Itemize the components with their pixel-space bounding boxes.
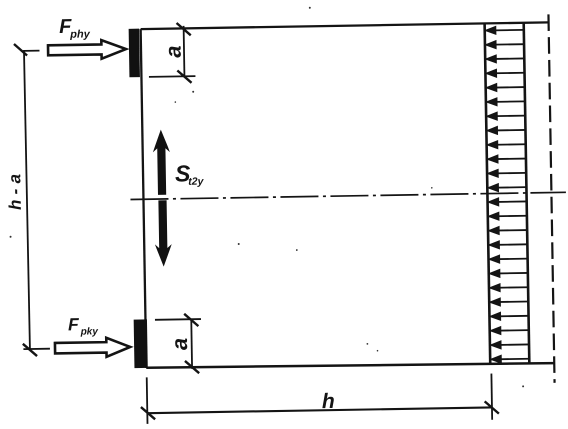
svg-text:t2y: t2y (188, 176, 205, 188)
plate right edge (loaded edge, arrow tip rail) (485, 23, 491, 363)
dimension h: left extension (146, 377, 149, 423)
force arrow F bottom (hollow) (55, 337, 131, 357)
bearing plate top (black) (129, 29, 140, 78)
dimension a bottom: upper stub (155, 318, 201, 321)
dimension h: right extension (490, 374, 493, 420)
svg-text:a: a (161, 45, 186, 58)
force arrow F top (hollow) (48, 40, 126, 60)
dimension h-a: top tick (14, 44, 27, 56)
dimension a top: lower stub (149, 75, 195, 78)
svg-text:F: F (68, 314, 80, 334)
centerline vertical dash-dot (right axis) (548, 14, 554, 382)
dimension h-a: bottom stub (23, 348, 49, 350)
distributed load right boundary rail (524, 23, 530, 363)
dimension h: right tick (485, 401, 499, 414)
plate left edge (141, 29, 147, 368)
distributed load rungs and arrowheads (485, 26, 529, 363)
bearing plate bottom (black) (134, 319, 148, 368)
dimension a top: line (183, 26, 186, 77)
plate bottom edge (146, 361, 554, 370)
dimension h-a: top stub (24, 50, 39, 52)
dimension a top: tick marks (177, 23, 191, 36)
plate top edge (box top, y=h top) (141, 22, 549, 29)
dimension h: left tick (141, 407, 155, 420)
centerline horizontal dash-dot (mid axis) (130, 192, 565, 199)
svg-text:h-a: h-a (5, 174, 25, 210)
svg-text:phy: phy (69, 28, 91, 40)
dimension h-a: line (24, 50, 30, 350)
dimension a bottom: line (190, 320, 193, 369)
svg-text:pky: pky (80, 326, 99, 337)
shear force arrow S (double headed, thick) (153, 129, 173, 266)
svg-text:a: a (167, 338, 192, 351)
dimension h-a: bottom tick (23, 344, 37, 357)
svg-text:h: h (322, 390, 335, 413)
dimension h: line (148, 407, 492, 413)
dimension a bottom: tick marks (184, 314, 198, 327)
